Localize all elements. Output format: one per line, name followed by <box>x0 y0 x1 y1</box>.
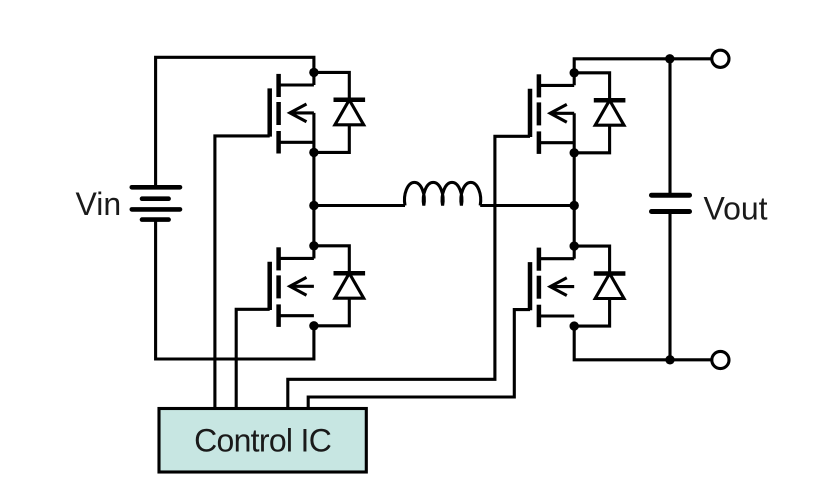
Q1 source dash <box>276 131 281 154</box>
Q4 drain lead <box>539 257 574 260</box>
wire: Vin negative to bottom-left rail <box>156 220 314 359</box>
svg-text:Vin: Vin <box>76 186 122 222</box>
Q4 gate bar <box>528 262 533 310</box>
Q4 drain dash <box>537 248 542 271</box>
Q3 body arrow <box>550 112 574 115</box>
battery Vin <box>132 187 180 219</box>
transistor Q2 left low-side MOSFET <box>270 247 314 327</box>
Q1 gate bar <box>267 88 272 136</box>
Q2 body arrow <box>290 285 314 288</box>
wire: gate of Q2 to Control IC <box>236 309 270 408</box>
Q3 drain lead <box>539 84 574 87</box>
node: Vout+ capacitor junction <box>665 54 674 63</box>
Q2 source dash <box>276 304 281 327</box>
node: Q3 source / D3 anode junction <box>570 148 579 157</box>
diode D4 body diode of Q4 <box>574 246 625 326</box>
inductor L1 <box>404 182 480 205</box>
diode D2 body diode of Q2 <box>314 246 365 326</box>
Q4 body arrow <box>550 285 574 288</box>
wire: left rail between Q1 and Q2 <box>312 113 315 259</box>
Q4 source lead <box>539 314 574 317</box>
Q4 body dash <box>537 276 542 299</box>
diode D1 body diode of Q1 <box>314 72 365 152</box>
Q1 drain dash <box>276 74 281 97</box>
diode D3 body diode of Q3 <box>574 73 625 153</box>
Q1 body dash <box>276 102 281 125</box>
Q3 gate bar <box>528 89 533 137</box>
capacitor C1 branch wire bottom <box>668 214 671 360</box>
wire: gate of Q3 to Control IC <box>288 136 530 408</box>
capacitor C1 <box>652 195 690 211</box>
Q3 source lead <box>539 141 574 144</box>
svg-text:Vout: Vout <box>704 190 768 226</box>
terminal: Vout positive <box>712 50 729 67</box>
Q1 source lead <box>279 141 314 144</box>
transistor Q3 right high-side MOSFET <box>530 74 574 154</box>
svg-text:Control IC: Control IC <box>194 423 331 459</box>
wire: switch node left to inductor <box>314 204 405 207</box>
Q3 source dash <box>537 131 542 154</box>
capacitor C1 branch wire top <box>668 59 671 193</box>
node: Q1 drain / D1 cathode junction <box>309 68 318 77</box>
Q4 source dash <box>537 305 542 328</box>
wire: right rail between Q3 and Q4 <box>573 113 576 258</box>
Q3 drain dash <box>537 74 542 97</box>
Q1 body arrow <box>290 111 314 114</box>
Q2 body dash <box>276 275 281 298</box>
wire: right rail top to Vout+ <box>574 59 711 86</box>
Q2 source lead <box>279 314 314 317</box>
transistor Q4 right low-side MOSFET <box>530 248 574 328</box>
wire: inductor to switch node right <box>480 204 574 207</box>
Q1 drain lead <box>279 83 314 86</box>
node: Q4 source / D4 anode junction <box>570 321 579 330</box>
Q2 drain lead <box>279 257 314 260</box>
Control IC box <box>159 409 366 473</box>
Q2 drain dash <box>276 247 281 270</box>
wire: gate of Q4 to Control IC <box>308 310 530 409</box>
transistor Q1 left high-side MOSFET <box>270 74 314 154</box>
Q2 gate bar <box>267 262 272 310</box>
wire: right rail bottom to Vout- <box>574 326 711 360</box>
terminal: Vout negative <box>712 351 729 368</box>
node: Q1 source / D1 anode junction <box>309 148 318 157</box>
node: Q2 source / D2 anode junction <box>309 321 318 330</box>
node: Q4 drain / D4 cathode junction <box>570 241 579 250</box>
wire: gate of Q1 to Control IC <box>215 136 270 409</box>
node: Vout- capacitor junction <box>665 355 674 364</box>
node: left switch node <box>309 201 318 210</box>
Q3 body dash <box>537 102 542 125</box>
node: Q3 drain / D3 cathode junction <box>570 68 579 77</box>
wire: Vin positive top rail <box>156 57 314 187</box>
node: right switch node <box>570 201 579 210</box>
node: Q2 drain / D2 cathode junction <box>309 241 318 250</box>
